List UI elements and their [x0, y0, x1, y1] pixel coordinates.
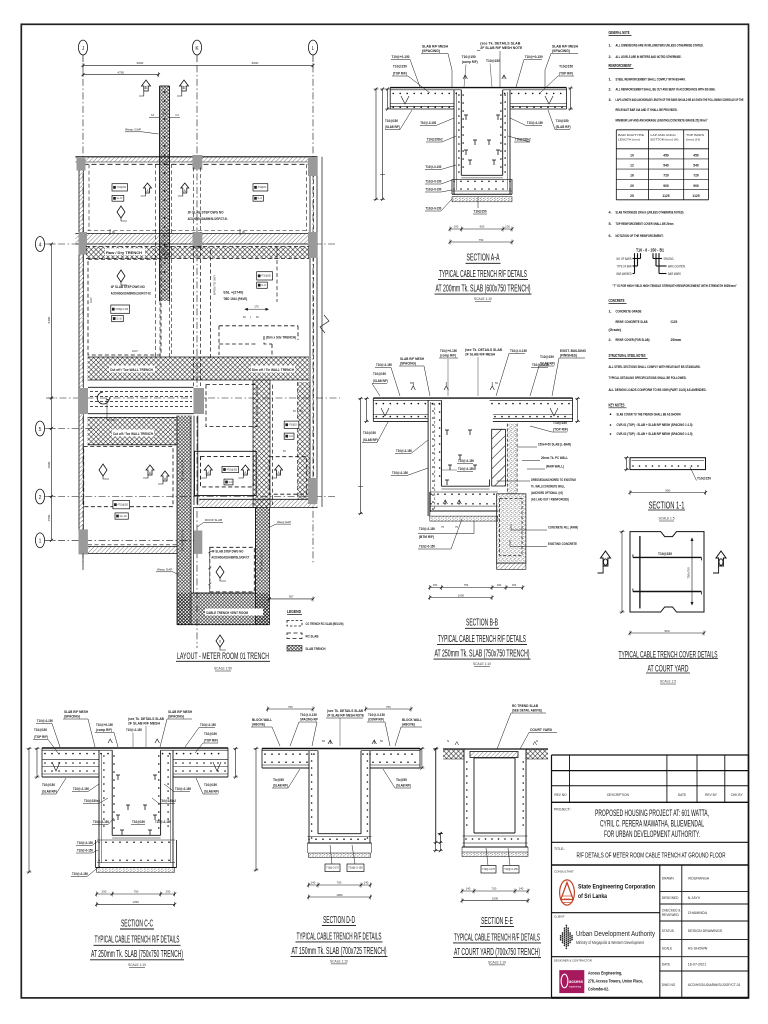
svg-text:5400: 5400	[47, 316, 51, 323]
svg-text:"T" IS FOR HIGH YIELD HIGH TEN: "T" IS FOR HIGH YIELD HIGH TENSILE STREN…	[613, 284, 738, 288]
svg-text:State Engineering Corporation: State Engineering Corporation	[578, 883, 655, 890]
svg-text:GL-10: GL-10	[117, 197, 123, 200]
central dashed trench outline (right)	[219, 326, 298, 355]
svg-text:T10@150x2: T10@150x2	[84, 799, 100, 803]
svg-text:AT 250mm Tk. SLAB (750x750 TRE: AT 250mm Tk. SLAB (750x750 TRENCH)	[91, 949, 183, 960]
svg-text:T10@150: T10@150	[42, 783, 55, 787]
svg-text:N.JAYV: N.JAYV	[688, 896, 701, 900]
svg-text:(TOP R/F): (TOP R/F)	[204, 739, 218, 743]
svg-text:C25: C25	[671, 320, 678, 324]
svg-text:600: 600	[480, 225, 485, 229]
svg-text:100: 100	[505, 225, 510, 229]
middle-right room	[257, 272, 273, 280]
svg-text:1500: 1500	[47, 514, 51, 521]
svg-text:(SLAB R/F): (SLAB R/F)	[363, 438, 378, 442]
svg-text:T10@-0-150: T10@-0-150	[376, 363, 392, 367]
svg-text:4T10@150: 4T10@150	[118, 504, 129, 507]
svg-text:EXISTING CONCRETE: EXISTING CONCRETE	[548, 542, 577, 546]
svg-text:2F SLAB STEP DWG NO: 2F SLAB STEP DWG NO	[188, 211, 225, 215]
svg-text:540: 540	[663, 164, 669, 168]
svg-text:900: 900	[663, 184, 669, 188]
svg-text:TBD 1944 (PAVE): TBD 1944 (PAVE)	[223, 297, 247, 301]
svg-text:TITLE:-: TITLE:-	[554, 847, 565, 851]
grid 4 wall band	[76, 234, 318, 245]
svg-text:SECTION C-C: SECTION C-C	[121, 918, 153, 929]
svg-text:access: access	[569, 979, 584, 984]
svg-text:Weep GAP: Weep GAP	[157, 568, 172, 572]
svg-text:507: 507	[289, 595, 294, 599]
svg-text:DATE: DATE	[678, 793, 686, 797]
svg-text:DATE: DATE	[662, 963, 670, 967]
svg-text:STRUCTURAL STEEL NOTES: STRUCTURAL STEEL NOTES	[609, 353, 646, 358]
svg-text:GL-10: GL-10	[289, 435, 293, 438]
svg-text:DRAWN: DRAWN	[662, 877, 675, 881]
svg-text:T10@150: T10@150	[34, 728, 47, 732]
svg-text:NO OF BARS: NO OF BARS	[617, 257, 632, 261]
section A-A drawing	[390, 87, 566, 89]
svg-text:T10@-0-150: T10@-0-150	[425, 207, 441, 211]
svg-text:DESCRIPTION: DESCRIPTION	[607, 793, 629, 797]
svg-text:T10@150: T10@150	[474, 210, 487, 214]
svg-text:T10@-0-150: T10@-0-150	[155, 820, 171, 824]
svg-text:E: E	[144, 85, 147, 90]
svg-text:900: 900	[693, 184, 699, 188]
svg-text:T10@-0-150: T10@-0-150	[420, 121, 436, 125]
svg-text:C4: C4	[175, 113, 179, 117]
svg-text:STATUS: STATUS	[662, 929, 674, 933]
svg-text:REV BY: REV BY	[705, 793, 718, 797]
svg-text:SCALE 1:10: SCALE 1:10	[128, 962, 147, 967]
dashed channel between columns	[88, 386, 194, 388]
svg-text:RC WALL 150 Tk.: RC WALL 150 Tk.	[259, 549, 263, 572]
svg-text:5.: 5.	[609, 222, 612, 226]
svg-text:3000: 3000	[47, 461, 51, 468]
svg-text:T10@150x2: T10@150x2	[160, 799, 176, 803]
svg-text:T10@-0-150: T10@-0-150	[73, 787, 89, 791]
svg-text:SCALE 1:10: SCALE 1:10	[474, 296, 493, 301]
grid horizontal dash-dot lines	[45, 243, 335, 245]
svg-text:1.: 1.	[609, 43, 612, 47]
svg-text:150x4+50 SLAB (L-BAR): 150x4+50 SLAB (L-BAR)	[538, 443, 571, 447]
svg-text:RC TREND SLAB: RC TREND SLAB	[512, 704, 539, 708]
svg-text:T10@150x2: T10@150x2	[515, 138, 531, 142]
svg-text:720: 720	[693, 174, 699, 178]
svg-text:140: 140	[519, 887, 524, 891]
right rooms at grid5 row	[206, 385, 257, 427]
svg-text:REV NO: REV NO	[554, 793, 567, 797]
SEC logo	[560, 880, 575, 905]
svg-text:(SPACING): (SPACING)	[168, 715, 184, 719]
svg-text:6000: 6000	[252, 61, 259, 65]
svg-text:ALL REINFORCEMENT SHALL BE CUT: ALL REINFORCEMENT SHALL BE CUT AND BENT …	[616, 88, 716, 92]
svg-text:T10@-0-150: T10@-0-150	[504, 867, 518, 871]
svg-text:(SPACING): (SPACING)	[422, 49, 440, 53]
svg-text:T10@-0-175: T10@-0-175	[326, 866, 339, 870]
svg-text:ALL DIMENSIONS ARE IN MILLIMET: ALL DIMENSIONS ARE IN MILLIMETERS UNLESS…	[616, 43, 704, 47]
svg-text:CLIENT: CLIENT	[554, 915, 565, 919]
svg-text:ROOF SLAB: ROOF SLAB	[205, 518, 222, 522]
svg-text:900: 900	[665, 488, 670, 492]
svg-text:1000: 1000	[458, 593, 465, 597]
svg-text:(TOP R/F): (TOP R/F)	[393, 72, 407, 76]
svg-text:2: 2	[39, 495, 42, 501]
svg-text:(RAW WALL): (RAW WALL)	[546, 465, 564, 469]
curved arrow symbol	[97, 392, 110, 404]
svg-text:T10@-0-150: T10@-0-150	[126, 728, 142, 732]
svg-text:3.: 3.	[609, 98, 612, 102]
section 1-1 drawing	[630, 458, 706, 470]
svg-text:SLAB R/F MESH: SLAB R/F MESH	[168, 710, 193, 714]
svg-text:DWG NO: DWG NO	[662, 983, 676, 987]
svg-text:4F SLAB STEP DWG NO: 4F SLAB STEP DWG NO	[111, 285, 145, 289]
svg-text:3F: 3F	[112, 230, 115, 234]
svg-text:(ABOVE): (ABOVE)	[252, 723, 265, 727]
row 1 columns	[77, 157, 86, 171]
svg-text:250: 250	[166, 890, 171, 894]
svg-text:(SLAB R/F): (SLAB R/F)	[42, 790, 57, 794]
svg-text:(see Tk. DETAILS SLAB: (see Tk. DETAILS SLAB	[327, 709, 364, 713]
svg-text:20: 20	[630, 184, 634, 188]
svg-text:200: 200	[497, 583, 502, 587]
existing wall stippled strip	[507, 424, 517, 494]
right outer wall	[309, 157, 311, 500]
svg-text:T10@-0-150: T10@-0-150	[200, 723, 216, 727]
svg-text:150: 150	[433, 583, 438, 587]
svg-text:REINF. CONCRETE SLAB: REINF. CONCRETE SLAB	[616, 320, 648, 324]
svg-text:VIDURANGA: VIDURANGA	[688, 877, 710, 881]
svg-text:TYPICAL CABLE TRENCH R/F DETAI: TYPICAL CABLE TRENCH R/F DETAILS	[439, 269, 527, 280]
svg-text:TYPE OF BAR: TYPE OF BAR	[617, 265, 632, 269]
svg-text:CVR-02 (TOP) : SLAB + SLAB R/F: CVR-02 (TOP) : SLAB + SLAB R/F MESH (SPA…	[617, 432, 694, 436]
svg-text:AT COURT YARD (700x750 TRENCH): AT COURT YARD (700x750 TRENCH)	[454, 947, 540, 958]
svg-text:R/F DETAILS OF METER ROOM CABL: R/F DETAILS OF METER ROOM CABLE TRENCH A…	[577, 851, 726, 860]
svg-text:140: 140	[364, 881, 369, 885]
plan left vertical dimension	[51, 244, 53, 540]
svg-text:SEC: SEC	[564, 897, 571, 901]
svg-text:NOTATION OF THE REINFORCEMENT:: NOTATION OF THE REINFORCEMENT:	[616, 234, 664, 238]
columns at grid5 row	[78, 388, 88, 414]
extension inner room	[193, 508, 255, 594]
title block	[552, 754, 749, 756]
svg-text:T10@-0-150: T10@-0-150	[392, 471, 408, 475]
plan grid circles J K L	[78, 40, 87, 55]
svg-text:RELEVANT BAR DIA AND IT SHALL: RELEVANT BAR DIA AND IT SHALL BE PROVIDE…	[616, 108, 678, 112]
svg-text:100: 100	[454, 225, 459, 229]
svg-text:4T10@150: 4T10@150	[258, 186, 267, 189]
row 2 columns (grid 4)	[79, 232, 88, 255]
svg-text:T10@-0-150: T10@-0-150	[72, 872, 88, 876]
svg-text:T10@-0-150: T10@-0-150	[77, 849, 93, 853]
svg-text:2.: 2.	[609, 55, 612, 59]
svg-text:REINF. COVER (FOR SLAB): REINF. COVER (FOR SLAB)	[616, 338, 651, 342]
svg-text:T10@+0-150: T10@+0-150	[525, 55, 543, 59]
svg-text:T10@150: T10@150	[204, 732, 217, 736]
svg-text:KEY NOTES: KEY NOTES	[609, 402, 625, 407]
svg-text:T10@150: T10@150	[697, 477, 711, 481]
svg-text:CVR-01 (TOP) : SLAB + SLAB R/F: CVR-01 (TOP) : SLAB + SLAB R/F MESH (SPA…	[617, 423, 694, 427]
svg-text:BLOCK WALL: BLOCK WALL	[252, 718, 272, 722]
svg-text:(TOP R/F): (TOP R/F)	[553, 428, 568, 432]
svg-text:T10@150: T10@150	[553, 421, 567, 425]
svg-text:T10@-0-175: T10@-0-175	[482, 867, 495, 871]
svg-text:T10@-0-150: T10@-0-150	[532, 363, 549, 367]
svg-text:PROPOSED HOUSING PROJECT AT: 6: PROPOSED HOUSING PROJECT AT: 601 WATTA,	[595, 808, 709, 818]
svg-text:CHAMINDA: CHAMINDA	[688, 911, 708, 915]
svg-text:Cut off / Toe WALL TRENCH: Cut off / Toe WALL TRENCH	[113, 432, 154, 436]
Access Engineering logo	[559, 970, 584, 993]
svg-text:BOTTOM (mm) (H): BOTTOM (mm) (H)	[651, 138, 679, 142]
svg-text:2F SLAB R/F MESH: 2F SLAB R/F MESH	[465, 353, 496, 357]
svg-text:2F SLAB R/F MESH: 2F SLAB R/F MESH	[128, 722, 161, 726]
section E-E drawing	[443, 748, 548, 750]
svg-text:Weep GAP: Weep GAP	[277, 520, 291, 524]
svg-text:TOP REINFORCEMENT COVER SHALL: TOP REINFORCEMENT COVER SHALL BE 25mm	[616, 222, 674, 226]
svg-text:ALL DESIGN LOADS CONFORM TO BS: ALL DESIGN LOADS CONFORM TO BS 6399 (PAR…	[609, 388, 707, 392]
svg-text:STEEL REINFORCEMENT SHALL COMP: STEEL REINFORCEMENT SHALL COMPLY WITH BS…	[616, 77, 686, 81]
svg-text:GL-10: GL-10	[120, 515, 128, 518]
svg-text:L: L	[312, 46, 315, 52]
svg-text:GENERAL NOTE: GENERAL NOTE	[609, 30, 630, 35]
svg-text:(SLAB R/F): (SLAB R/F)	[396, 784, 411, 788]
svg-text:25mm: 25mm	[671, 338, 682, 342]
svg-text:N: N	[447, 739, 449, 743]
svg-text:T10@150: T10@150	[132, 820, 145, 824]
svg-text:TYPICAL CABLE TRENCH R/F DETAI: TYPICAL CABLE TRENCH R/F DETAILS	[297, 931, 382, 942]
svg-text:Cut off / Toe WALL TRENCH: Cut off / Toe WALL TRENCH	[110, 368, 154, 372]
svg-text:Colombo-02.: Colombo-02.	[588, 987, 609, 992]
svg-text:C4: C4	[151, 113, 155, 117]
svg-text:(SLAB R/F): (SLAB R/F)	[204, 790, 219, 794]
grid vertical dash-dot lines	[82, 65, 84, 565]
svg-text:of Sri Lanka: of Sri Lanka	[578, 893, 607, 900]
svg-text:SECTION B-B: SECTION B-B	[466, 618, 498, 629]
svg-text:(SPACING): (SPACING)	[64, 715, 80, 719]
svg-text:DESIGNED: DESIGNED	[662, 896, 679, 900]
svg-text:3F: 3F	[242, 230, 245, 234]
svg-text:LEGEND: LEGEND	[287, 609, 301, 614]
svg-text:T10@150: T10@150	[658, 552, 672, 556]
svg-text:(see Tk. DETAILS SLAB: (see Tk. DETAILS SLAB	[465, 348, 503, 352]
svg-text:T10@+0-150: T10@+0-150	[440, 349, 457, 353]
svg-text:SCALE 1:50: SCALE 1:50	[214, 666, 233, 671]
svg-text:(comp R/F): (comp R/F)	[96, 728, 112, 732]
svg-text:GL-10: GL-10	[261, 284, 266, 287]
svg-text:SCALE: SCALE	[662, 947, 672, 951]
svg-text:T10@+0-150: T10@+0-150	[392, 55, 410, 59]
svg-text:140: 140	[311, 881, 316, 885]
left band 2 (crosshatch)	[88, 417, 177, 444]
svg-text:CYRIL C. PERERA MAWATHA, BLUEM: CYRIL C. PERERA MAWATHA, BLUEMENDAL	[600, 819, 704, 829]
bottom-left dashed room	[84, 447, 173, 507]
svg-text:SLAB COVER TO THE TRENCH SHALL: SLAB COVER TO THE TRENCH SHALL BE AS SHO…	[617, 412, 681, 416]
svg-text:REVIEWED: REVIEWED	[662, 913, 680, 917]
svg-text:1125: 1125	[662, 194, 669, 198]
svg-text:(SEE DETAIL ABOVE): (SEE DETAIL ABOVE)	[512, 709, 542, 713]
svg-text:6.: 6.	[609, 234, 612, 238]
svg-text:T10@150: T10@150	[393, 65, 407, 69]
svg-text:SPACING: SPACING	[664, 257, 674, 261]
svg-text:BAR DIA/TYPE: BAR DIA/TYPE	[618, 133, 644, 137]
svg-text:T10@-0-150: T10@-0-150	[419, 545, 435, 549]
svg-text:10: 10	[630, 153, 634, 157]
svg-text:CABLE TRENCH VENT ROOM: CABLE TRENCH VENT ROOM	[206, 611, 248, 615]
svg-text:278, Access Towers, Union Plac: 278, Access Towers, Union Place,	[588, 979, 643, 984]
svg-text:4F SLAB STEP DWG NO: 4F SLAB STEP DWG NO	[211, 550, 243, 554]
svg-text:SSL +(2740): SSL +(2740)	[223, 291, 243, 295]
svg-text:engineering: engineering	[569, 986, 582, 989]
central bottom wall lines	[193, 416, 195, 505]
svg-text:(see Tk. DETAILS SLAB: (see Tk. DETAILS SLAB	[128, 717, 165, 721]
svg-text:T10@+0-150: T10@+0-150	[96, 723, 113, 727]
svg-text:750: 750	[386, 705, 391, 709]
grid 2 wall band right part	[199, 499, 317, 507]
svg-text:4750: 4750	[117, 70, 124, 74]
svg-text:(comp R/F): (comp R/F)	[440, 354, 456, 358]
svg-text:12: 12	[630, 164, 634, 168]
svg-text:2F SLAB R/F MESH NOTE: 2F SLAB R/F MESH NOTE	[480, 46, 522, 50]
svg-text:150: 150	[512, 583, 517, 587]
svg-text:1.: 1.	[609, 77, 612, 81]
svg-text:1: 1	[39, 539, 42, 545]
svg-text:AT 200mm Tk. SLAB (600x750 TRE: AT 200mm Tk. SLAB (600x750 TRENCH)	[436, 284, 531, 295]
svg-text:ACD/HSG/UDA/BM/SLS/GF/CT: ACD/HSG/UDA/BM/SLS/GF/CT	[211, 556, 249, 560]
K grid inner dashed walls	[193, 246, 195, 386]
svg-text:4T10@150: 4T10@150	[227, 468, 238, 471]
svg-text:T10@-0-150: T10@-0-150	[93, 820, 109, 824]
svg-text:CHK BY: CHK BY	[731, 793, 744, 797]
svg-text:T10@150: T10@150	[204, 783, 217, 787]
svg-text:Dim off / Tie WALL TRENCH: Dim off / Tie WALL TRENCH	[252, 368, 295, 372]
svg-text:750: 750	[134, 890, 139, 894]
svg-text:1.: 1.	[609, 310, 612, 314]
svg-text:(COMP R/F): (COMP R/F)	[368, 718, 384, 722]
toe wall band (crosshatch)	[88, 357, 310, 380]
svg-text:(see Tk. DETAILS SLAB: (see Tk. DETAILS SLAB	[480, 42, 521, 46]
svg-text:1047: 1047	[132, 349, 138, 353]
svg-text:CONSULTANT: CONSULTANT	[554, 870, 574, 874]
svg-text:Tk. WALL/CONCRETE WALL: Tk. WALL/CONCRETE WALL	[531, 485, 565, 489]
svg-text:(BTM R/F): (BTM R/F)	[419, 535, 434, 539]
svg-text:250: 250	[102, 890, 107, 894]
svg-text:CONCRETE: CONCRETE	[609, 298, 625, 303]
svg-text:TYPICAL CABLE TRENCH R/F DETAI: TYPICAL CABLE TRENCH R/F DETAILS	[454, 932, 540, 943]
svg-text:(SLAB R/F): (SLAB R/F)	[273, 784, 288, 788]
room row above extension	[195, 451, 257, 495]
top room inset dashed outline	[88, 164, 90, 231]
svg-text:1047: 1047	[89, 297, 93, 303]
svg-text:450: 450	[693, 153, 699, 157]
svg-text:T10@-0-150: T10@-0-150	[175, 787, 191, 791]
svg-text:SLAB TRENCH: SLAB TRENCH	[306, 647, 327, 651]
svg-text:T10@150: T10@150	[385, 119, 398, 123]
svg-text:FOR URBAN DEVELOPMENT AUTHORIT: FOR URBAN DEVELOPMENT AUTHORITY.	[604, 829, 700, 839]
top room labels	[112, 184, 128, 191]
svg-text:LAPS LENGTH AND ANCHORAGE LENG: LAPS LENGTH AND ANCHORAGE LENGTH OF THE …	[616, 98, 744, 102]
svg-text:SLAB R/F MESH: SLAB R/F MESH	[64, 710, 89, 714]
break mark on right wall	[320, 315, 329, 333]
svg-text:BLOCK WALL: BLOCK WALL	[402, 718, 422, 722]
svg-text:750x750: 750x750	[687, 567, 691, 579]
svg-text:T10@150: T10@150	[559, 65, 573, 69]
svg-text:ALL LEVELS ARE IN METERS AND N: ALL LEVELS ARE IN METERS AND NOTED OTHER…	[616, 55, 682, 59]
svg-text:T10@-0-150: T10@-0-150	[425, 180, 441, 184]
svg-text:(comp R/F): (comp R/F)	[462, 60, 478, 64]
top building wall band	[76, 157, 318, 162]
svg-text:T10@-0-150: T10@-0-150	[527, 121, 543, 125]
svg-text:COURT YARD: COURT YARD	[530, 728, 553, 732]
svg-text:(Grade): (Grade)	[609, 328, 621, 332]
svg-text:T10@150: T10@150	[556, 119, 569, 123]
section B-B drawing	[373, 397, 572, 399]
svg-text:(TOP R/F): (TOP R/F)	[34, 735, 48, 739]
svg-text:750: 750	[479, 238, 484, 242]
svg-text:T10@-0-150: T10@-0-150	[300, 713, 317, 717]
svg-text:720: 720	[663, 174, 669, 178]
svg-text:Weep GAP: Weep GAP	[125, 128, 141, 132]
svg-text:(TOP R/F): (TOP R/F)	[559, 72, 573, 76]
svg-text:T10@150: T10@150	[540, 355, 554, 359]
bottom-left wall band (grid 1)	[87, 547, 177, 554]
svg-text:GL-10: GL-10	[258, 197, 263, 200]
svg-text:4T10@150: 4T10@150	[289, 424, 298, 427]
meter room extension left wall	[177, 416, 191, 625]
UDA logo	[560, 924, 573, 949]
svg-text:Raw / Dry TRENCH: Raw / Dry TRENCH	[106, 251, 143, 255]
svg-text:1000: 1000	[492, 896, 499, 900]
svg-text:SECTION D-D: SECTION D-D	[323, 915, 355, 926]
svg-text:Access Engineering,: Access Engineering,	[588, 971, 622, 976]
svg-text:TOP BARS: TOP BARS	[686, 133, 704, 137]
svg-text:LENGTH (mm): LENGTH (mm)	[618, 138, 640, 142]
svg-text:T10@-0-150: T10@-0-150	[396, 449, 412, 453]
svg-text:ACD/HSG/UDA/BM/SLS/GF/CT-01: ACD/HSG/UDA/BM/SLS/GF/CT-01	[188, 217, 228, 221]
svg-text:275: 275	[254, 305, 259, 309]
svg-text:Ministry of Megapolis & Wester: Ministry of Megapolis & Western Developm…	[576, 940, 645, 945]
svg-text:DESIGN DRAWINGS: DESIGN DRAWINGS	[688, 929, 723, 933]
svg-text:SCALE 1:10: SCALE 1:10	[473, 661, 492, 666]
svg-text:OPEN TO SKY: OPEN TO SKY	[213, 275, 217, 295]
svg-text:SLAB R/F MESH: SLAB R/F MESH	[552, 45, 579, 49]
svg-text:4.: 4.	[609, 210, 612, 214]
svg-text:2.: 2.	[609, 338, 612, 342]
central wall strip (crosshatch) above grid 4	[160, 86, 170, 301]
svg-text:REINFORCEMENT: REINFORCEMENT	[609, 63, 632, 68]
middle-left room dashed rect	[88, 259, 161, 355]
svg-text:LAP AND ANCH.: LAP AND ANCH.	[651, 133, 677, 137]
svg-text:TYPICAL CABLE TRENCH R/F DETAI: TYPICAL CABLE TRENCH R/F DETAILS	[95, 935, 180, 946]
svg-text:SPACING R/F: SPACING R/F	[300, 718, 318, 722]
svg-text:AT 250mm Tk. SLAB (750x750 TRE: AT 250mm Tk. SLAB (750x750 TRENCH)	[435, 649, 530, 660]
svg-text:RC SLAB: RC SLAB	[306, 635, 320, 639]
svg-text:(FINISHES): (FINISHES)	[560, 354, 577, 358]
svg-text:GL-10: GL-10	[229, 481, 233, 484]
svg-text:1250: 1250	[133, 900, 140, 904]
svg-text:(ABOVE): (ABOVE)	[402, 723, 415, 727]
svg-text:Tk@50: Tk@50	[396, 778, 407, 782]
svg-text:750: 750	[464, 583, 469, 587]
svg-text:AS SHOWN: AS SHOWN	[688, 947, 708, 951]
svg-text:T10@150x2: T10@150x2	[427, 138, 443, 142]
meter room extension bottom wall	[177, 593, 270, 625]
svg-text:T10@-0-150: T10@-0-150	[37, 719, 53, 723]
svg-text:6000: 6000	[137, 61, 144, 65]
existing footing stippled	[497, 494, 526, 563]
svg-text:SCALE 1:5: SCALE 1:5	[660, 679, 677, 684]
svg-text:(AS LAID OUT / REINFORCED): (AS LAID OUT / REINFORCED)	[531, 498, 569, 502]
svg-text:(SLAB R/F): (SLAB R/F)	[556, 125, 571, 129]
svg-text:DESIGNER & CONTRACTOR: DESIGNER & CONTRACTOR	[554, 959, 592, 963]
svg-text:1125: 1125	[692, 194, 699, 198]
